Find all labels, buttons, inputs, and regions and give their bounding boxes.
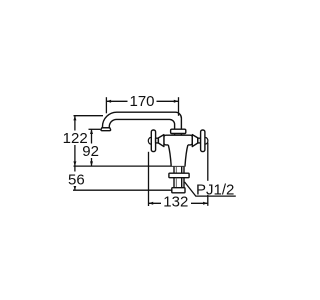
svg-text:92: 92 — [82, 143, 99, 160]
svg-text:170: 170 — [129, 93, 154, 110]
svg-text:56: 56 — [68, 171, 85, 188]
svg-text:PJ1/2: PJ1/2 — [196, 182, 234, 199]
svg-text:132: 132 — [163, 194, 188, 211]
